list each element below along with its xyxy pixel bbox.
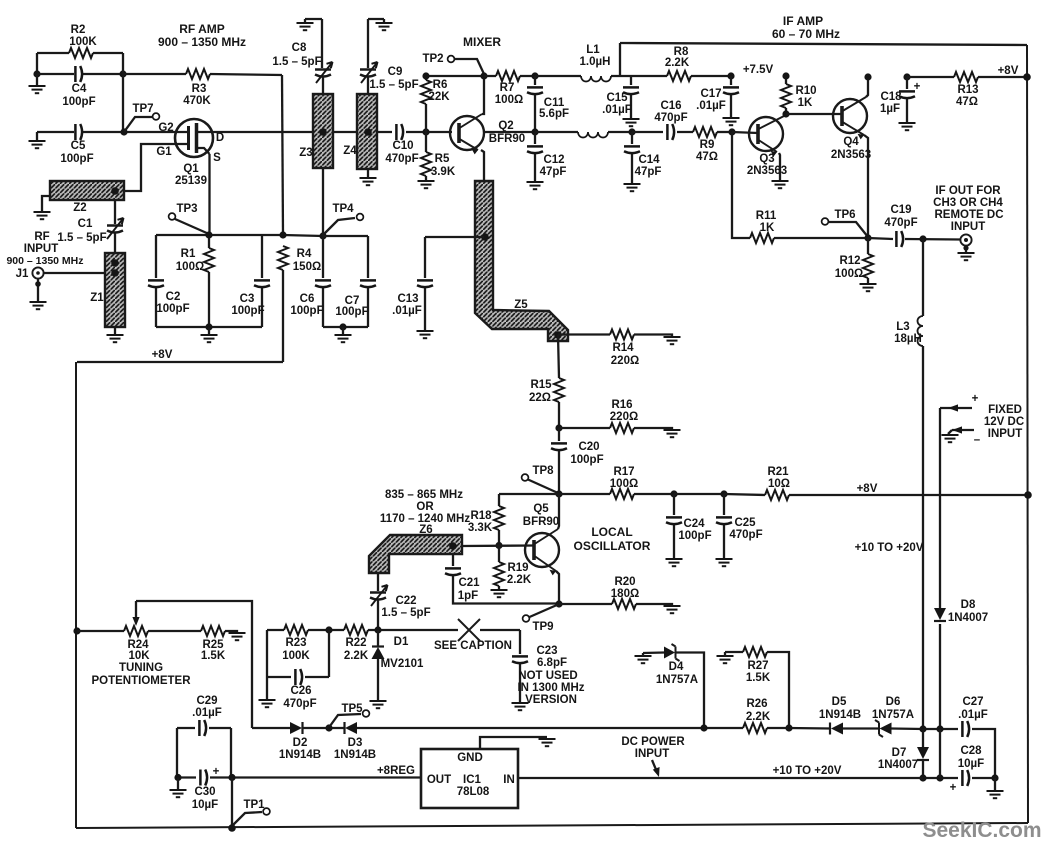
svg-text:DC POWER: DC POWER: [621, 736, 685, 748]
svg-text:C26: C26: [290, 685, 311, 697]
resistor R21: [724, 494, 1028, 495]
svg-text:C13: C13: [397, 293, 418, 305]
svg-text:100pF: 100pF: [231, 305, 264, 317]
node: Q5 base junction: [495, 542, 502, 549]
svg-text:47Ω: 47Ω: [956, 96, 978, 108]
test point TP2: [448, 56, 455, 63]
svg-text:C2: C2: [166, 291, 181, 303]
diode D6 1N757A (zener): [875, 720, 883, 737]
svg-text:R17: R17: [613, 466, 634, 478]
svg-text:Z3: Z3: [299, 147, 312, 159]
svg-text:100K: 100K: [69, 36, 97, 48]
svg-text:C12: C12: [543, 154, 564, 166]
stripline Z6: [369, 535, 462, 573]
capacitor C7: [367, 236, 369, 327]
node: C22/D1 junction: [374, 626, 381, 633]
ground above Z3: [305, 19, 322, 23]
stripline Z4: [357, 94, 377, 169]
capacitor C6: [322, 236, 324, 327]
node: Z4 tap: [364, 128, 372, 136]
resistor R3: [123, 74, 282, 75]
wire: R2 left drop: [36, 53, 38, 74]
svg-text:D3: D3: [348, 737, 363, 749]
svg-text:C8: C8: [292, 42, 307, 54]
svg-text:IF AMP: IF AMP: [783, 14, 823, 28]
svg-text:C27: C27: [962, 696, 983, 708]
inductor L2: [535, 131, 632, 133]
resistor R5: [425, 132, 427, 180]
capacitor C19: [868, 238, 961, 240]
svg-text:TP2: TP2: [422, 53, 443, 65]
svg-text:220Ω: 220Ω: [610, 411, 638, 423]
node: Q2 base junction: [422, 128, 429, 135]
resistor R26: [743, 723, 767, 733]
resistor R1: [208, 235, 210, 327]
svg-text:R7: R7: [500, 82, 515, 94]
svg-text:2.2K: 2.2K: [665, 57, 690, 69]
wire: IC1 OUT line: [232, 776, 421, 778]
wire: 12V feed down: [939, 408, 941, 729]
svg-text:470pF: 470pF: [283, 698, 316, 710]
svg-text:+8V: +8V: [857, 483, 878, 495]
svg-text:C19: C19: [890, 204, 911, 216]
svg-text:GND: GND: [457, 752, 483, 764]
svg-text:3.3K: 3.3K: [468, 522, 493, 534]
node: mixer collector node: [480, 72, 487, 79]
svg-text:RF AMP: RF AMP: [179, 22, 225, 36]
node: Q3 base: [728, 128, 735, 135]
svg-text:BFR90: BFR90: [523, 516, 559, 528]
svg-text:J1: J1: [16, 268, 29, 280]
svg-text:D1: D1: [394, 636, 409, 648]
node: R10 top: [782, 72, 789, 79]
capacitor C14: [631, 132, 633, 183]
svg-text:G2: G2: [158, 122, 173, 134]
svg-text:Q2: Q2: [498, 120, 513, 132]
transistor Q2 BFR90: [450, 116, 484, 150]
ground at Z2 left: [42, 196, 50, 211]
svg-text:R26: R26: [746, 698, 767, 710]
svg-text:S: S: [213, 152, 221, 164]
svg-text:TP9: TP9: [532, 621, 553, 633]
node: D7 bottom: [919, 774, 926, 781]
svg-text:TP1: TP1: [243, 799, 265, 811]
wire: IC1 IN line: [518, 777, 923, 779]
node: left frame / tuning line: [73, 627, 80, 634]
node: +8V right frame lower: [1024, 491, 1032, 499]
svg-text:100pF: 100pF: [570, 454, 603, 466]
wire: Q4 collector: [866, 77, 868, 97]
svg-text:R3: R3: [192, 83, 207, 95]
node: L3 top: [919, 235, 926, 242]
node: bottom frame TP1: [228, 824, 236, 832]
svg-text:.01µF: .01µF: [392, 305, 422, 317]
svg-text:C16: C16: [660, 100, 681, 112]
svg-text:+10 TO +20V: +10 TO +20V: [855, 542, 924, 554]
svg-text:R4: R4: [297, 248, 312, 260]
svg-text:R11: R11: [756, 210, 777, 222]
test point TP6: [822, 218, 829, 225]
svg-text:1.5 – 5pF: 1.5 – 5pF: [272, 56, 321, 68]
capacitor C4: [37, 73, 123, 75]
ground below R5: [418, 181, 435, 188]
node: D2/D3/TP5 junction: [325, 724, 332, 731]
svg-text:47Ω: 47Ω: [696, 151, 718, 163]
node: Z5 upper tap: [481, 233, 489, 241]
svg-text:L1: L1: [586, 44, 600, 56]
svg-text:POTENTIOMETER: POTENTIOMETER: [91, 675, 191, 687]
svg-text:1N4007: 1N4007: [878, 759, 918, 771]
svg-text:Q5: Q5: [533, 503, 549, 515]
node: G2 line / TP7: [120, 128, 127, 135]
svg-text:Z4: Z4: [343, 145, 357, 157]
svg-text:D5: D5: [832, 696, 847, 708]
wire: right frame: [1027, 45, 1028, 823]
resistor R27: [743, 647, 767, 657]
node: TP4 junction: [319, 232, 326, 239]
node: Q5 collector junction: [555, 490, 562, 497]
svg-text:IF OUT FOR: IF OUT FOR: [935, 185, 1001, 197]
svg-text:C30: C30: [194, 786, 215, 798]
resistor R8: [631, 75, 731, 77]
capacitor C8 (variable): [322, 19, 323, 94]
arrow: DC power input pointer: [652, 760, 657, 772]
capacitor C24: [673, 494, 675, 558]
node: C30 left: [174, 774, 181, 781]
test point TP7: [124, 117, 152, 132]
svg-text:2.2K: 2.2K: [507, 574, 532, 586]
wire: bottom frame: [76, 823, 1028, 828]
svg-text:TUNING: TUNING: [119, 662, 163, 674]
wire: 12V minus lead with arrow: [952, 429, 974, 431]
capacitor C29: [177, 728, 231, 777]
svg-text:Q4: Q4: [843, 136, 859, 148]
resistor R15: [558, 335, 559, 428]
test point TP1: [233, 812, 262, 825]
ground at IC1 GND: [539, 739, 556, 746]
svg-text:100Ω: 100Ω: [610, 478, 638, 490]
svg-text:1.5 – 5pF: 1.5 – 5pF: [57, 232, 106, 244]
svg-text:+8REG: +8REG: [377, 765, 415, 777]
svg-text:470pF: 470pF: [729, 529, 762, 541]
node: IF out junction: [864, 234, 871, 241]
capacitor C28 (electrolytic): [923, 777, 995, 779]
node: Q4 collector rail: [864, 73, 871, 80]
svg-text:1N757A: 1N757A: [872, 709, 914, 721]
svg-text:TP8: TP8: [532, 465, 554, 477]
svg-text:D4: D4: [669, 661, 684, 673]
svg-text:Z2: Z2: [73, 202, 86, 214]
capacitor C20: [558, 428, 560, 494]
node: Z6 tap: [449, 542, 457, 550]
ground below IF jack: [965, 246, 967, 252]
ground at R16: [664, 430, 681, 437]
svg-text:C21: C21: [458, 577, 480, 589]
capacitor C3: [261, 235, 263, 327]
test point TP3: [169, 213, 176, 220]
svg-text:D7: D7: [892, 747, 907, 759]
node: Z5 lower tap: [554, 331, 562, 339]
svg-text:C10: C10: [392, 140, 413, 152]
capacitor C1 (variable): [114, 200, 116, 253]
stripline Z2: [50, 181, 124, 200]
mark: SEE CAPTION X: [458, 619, 480, 641]
svg-text:OSCILLATOR: OSCILLATOR: [574, 539, 651, 553]
ground at D4: [635, 656, 652, 663]
wire: rail riser to IF bus: [619, 43, 621, 76]
resistor R2: [37, 52, 123, 54]
svg-text:+: +: [213, 766, 220, 778]
svg-text:10Ω: 10Ω: [768, 478, 790, 490]
wire: 12V plus lead with arrow: [940, 407, 972, 409]
svg-text:10K: 10K: [128, 650, 150, 662]
capacitor C16: [632, 131, 693, 133]
wire: varactor tuning line: [267, 629, 520, 631]
svg-text:.01µF: .01µF: [602, 104, 632, 116]
node: 12V line at IN rail: [936, 774, 943, 781]
wire: Q4 emitter down: [864, 135, 868, 238]
capacitor C12: [534, 132, 536, 181]
svg-text:IN: IN: [503, 774, 515, 786]
ground at 12V minus: [942, 435, 959, 442]
svg-text:22K: 22K: [428, 91, 450, 103]
transistor Q1 (dual-gate FET 25139): [175, 119, 213, 157]
svg-text:IC1: IC1: [463, 774, 482, 786]
test point TP4: [324, 218, 355, 234]
resistor R25: [225, 631, 237, 632]
capacitor C30 (electrolytic): [178, 776, 232, 778]
transistor Q3 2N3563: [732, 132, 758, 133]
svg-text:TP5: TP5: [341, 703, 363, 715]
wire: Q5 emitter drop: [556, 571, 559, 604]
wire: bias row to R4: [262, 235, 323, 236]
svg-text:100pF: 100pF: [62, 96, 95, 108]
svg-text:100pF: 100pF: [678, 530, 711, 542]
wire: Q2 right stub to C11: [484, 131, 536, 133]
svg-text:1N914B: 1N914B: [279, 749, 321, 761]
node: C11/C12 junction: [531, 128, 538, 135]
svg-text:5.6pF: 5.6pF: [539, 108, 569, 120]
svg-text:1.5K: 1.5K: [201, 650, 226, 662]
resistor R7: [484, 75, 535, 77]
svg-text:R12: R12: [839, 255, 860, 267]
svg-text:470pF: 470pF: [654, 112, 687, 124]
svg-text:–: –: [974, 434, 981, 446]
node: Z1 tap upper: [111, 259, 119, 267]
svg-text:C18: C18: [880, 91, 902, 103]
wire: Z3 bottom to TP4: [322, 168, 324, 236]
resistor R17: [499, 493, 674, 495]
capacitor C15: [630, 76, 632, 118]
svg-text:C1: C1: [78, 218, 93, 230]
diode D8 1N4007: [934, 608, 946, 620]
wire: C13 link to Z5: [425, 236, 484, 238]
node: C28 right: [991, 774, 998, 781]
ground below R1: [208, 327, 210, 334]
svg-text:+7.5V: +7.5V: [743, 64, 774, 76]
svg-text:R23: R23: [285, 637, 306, 649]
svg-text:R15: R15: [530, 379, 552, 391]
svg-text:150Ω: 150Ω: [293, 261, 321, 273]
test point TP5: [330, 714, 361, 726]
node: D4 drop junction: [700, 724, 707, 731]
wire: IC1 GND pin: [480, 737, 547, 749]
node: C4 left: [33, 70, 40, 77]
svg-text:C25: C25: [734, 517, 756, 529]
wire: top IF bus: [620, 43, 1027, 45]
ground below C12: [527, 182, 544, 189]
ground at R27: [717, 656, 734, 663]
node: C14 top: [628, 128, 635, 135]
ground below Z1: [114, 327, 116, 334]
svg-text:.01µF: .01µF: [696, 100, 726, 112]
svg-text:C6: C6: [300, 293, 315, 305]
svg-text:R16: R16: [611, 399, 632, 411]
connector J1: [44, 272, 105, 274]
ground above Z4: [368, 19, 384, 23]
resistor R14: [558, 335, 672, 337]
ground at Q3 emitter: [772, 181, 789, 188]
svg-text:Q1: Q1: [183, 163, 199, 175]
ground below C13: [417, 331, 434, 338]
svg-text:C29: C29: [196, 695, 217, 707]
resistor R13: [907, 76, 1027, 78]
diode D7 1N4007: [922, 729, 924, 778]
svg-text:R5: R5: [435, 153, 450, 165]
ground below C25: [716, 559, 733, 566]
svg-text:TP3: TP3: [176, 203, 197, 215]
svg-text:G1: G1: [156, 146, 172, 158]
capacitor C13: [424, 237, 426, 330]
svg-text:1170 – 1240 MHz: 1170 – 1240 MHz: [380, 513, 470, 525]
ground at R14: [664, 337, 681, 344]
svg-text:INPUT: INPUT: [24, 243, 59, 255]
capacitor C26: [267, 630, 329, 699]
ground below C26: [259, 700, 276, 707]
svg-text:R6: R6: [433, 79, 448, 91]
node: C18 top: [903, 73, 910, 80]
node: R6 top: [422, 72, 429, 79]
svg-text:INPUT: INPUT: [988, 428, 1023, 440]
potentiometer R24: [77, 630, 201, 632]
ground below R12: [860, 284, 877, 291]
svg-text:6.8pF: 6.8pF: [537, 657, 567, 669]
svg-text:2.2K: 2.2K: [746, 711, 771, 723]
regulator IC1 78L08: [421, 749, 518, 808]
svg-text:.01µF: .01µF: [958, 709, 988, 721]
wire: box C6/C7: [323, 236, 368, 327]
svg-text:R18: R18: [470, 510, 492, 522]
svg-text:R19: R19: [507, 562, 528, 574]
capacitor C18 (electrolytic): [906, 77, 908, 122]
svg-text:78L08: 78L08: [457, 786, 490, 798]
node: C11 top: [531, 72, 538, 79]
node: Z2 tap: [111, 187, 119, 195]
svg-text:2.2K: 2.2K: [344, 650, 369, 662]
svg-text:RF: RF: [34, 231, 49, 243]
svg-text:+: +: [914, 81, 921, 93]
svg-text:D: D: [216, 132, 224, 144]
capacitor C23: [519, 630, 521, 702]
svg-text:REMOTE DC: REMOTE DC: [935, 209, 1004, 221]
ground below C6/C7: [342, 327, 344, 334]
svg-text:Z1: Z1: [90, 292, 104, 304]
stripline Z5: [475, 181, 568, 341]
svg-text:R2: R2: [71, 24, 86, 36]
ground below C30 left: [177, 778, 179, 790]
ground at R25: [229, 633, 246, 640]
node: R2/R3 junction: [119, 70, 126, 77]
svg-text:47pF: 47pF: [635, 166, 662, 178]
ground below C24: [666, 559, 683, 566]
svg-text:100K: 100K: [282, 650, 310, 662]
wire: C30 drop to bottom frame: [231, 778, 233, 829]
ground at C5 left: [36, 132, 38, 140]
ground below D1: [370, 701, 387, 708]
test point TP9: [523, 615, 530, 622]
svg-text:R22: R22: [345, 637, 366, 649]
node: +7.5V rail: [727, 72, 734, 79]
resistor R9: [717, 131, 732, 133]
svg-text:R27: R27: [747, 660, 768, 672]
ground below R19: [491, 590, 508, 597]
svg-text:MIXER: MIXER: [463, 35, 501, 49]
diode D3 1N914B: [343, 722, 345, 734]
svg-text:D2: D2: [293, 737, 308, 749]
svg-text:LOCAL: LOCAL: [591, 525, 632, 539]
ground below C28: [994, 778, 996, 790]
resistor R6: [425, 76, 427, 132]
svg-text:+: +: [972, 393, 979, 405]
capacitor C25: [723, 494, 725, 558]
svg-text:1.5K: 1.5K: [746, 672, 771, 684]
svg-text:10µF: 10µF: [958, 758, 984, 770]
node: Z3 tap: [319, 128, 327, 136]
svg-text:10µF: 10µF: [192, 799, 218, 811]
svg-text:INPUT: INPUT: [951, 221, 986, 233]
svg-text:C20: C20: [578, 441, 599, 453]
svg-text:1N757A: 1N757A: [656, 674, 698, 686]
resistor R4: [278, 246, 288, 270]
node: +8V right frame: [1023, 73, 1031, 81]
svg-text:L3: L3: [896, 321, 909, 333]
resistor R18: [498, 494, 500, 545]
inductor L1: [535, 75, 631, 77]
svg-text:C24: C24: [683, 518, 705, 530]
svg-text:D8: D8: [961, 599, 976, 611]
node: Q5 emitter junction: [555, 600, 562, 607]
svg-text:2N3563: 2N3563: [831, 149, 871, 161]
node: C25 top: [720, 490, 727, 497]
wire: C21 bottom to Q5 emitter: [453, 602, 559, 605]
ground below C4 left: [36, 74, 38, 85]
capacitor C22 (variable): [377, 573, 379, 630]
svg-text:VERSION: VERSION: [525, 694, 577, 706]
ground below C14: [624, 184, 641, 191]
ground below C23: [512, 703, 529, 710]
capacitor C17: [730, 76, 732, 117]
wire: pot wiper feedback: [136, 601, 252, 728]
svg-text:Q3: Q3: [759, 153, 774, 165]
node: S bias top: [205, 231, 212, 238]
svg-text:180Ω: 180Ω: [611, 588, 639, 600]
svg-text:+8V: +8V: [998, 65, 1019, 77]
svg-text:C4: C4: [72, 83, 87, 95]
svg-text:R9: R9: [700, 139, 715, 151]
svg-text:100Ω: 100Ω: [835, 268, 863, 280]
ground below C15: [623, 119, 640, 126]
wire: R2 right drop to G2 line: [122, 53, 124, 132]
